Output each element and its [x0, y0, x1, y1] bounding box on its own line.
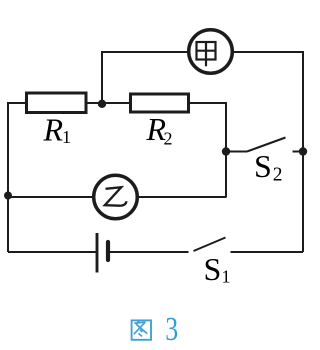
svg-text:2: 2	[164, 129, 173, 149]
svg-text:2: 2	[273, 165, 283, 186]
svg-text:S: S	[204, 251, 222, 287]
svg-text:S: S	[254, 148, 272, 184]
svg-text:R: R	[43, 112, 64, 148]
svg-text:1: 1	[222, 267, 231, 287]
svg-text:3: 3	[165, 310, 178, 348]
svg-text:1: 1	[62, 127, 71, 147]
